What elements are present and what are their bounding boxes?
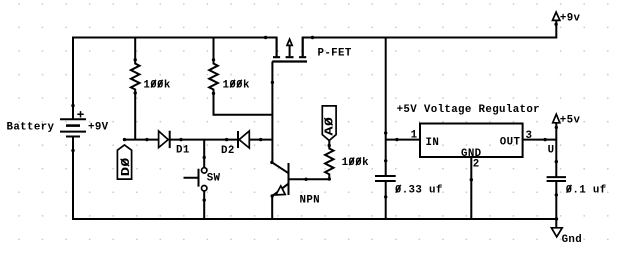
svg-text:Gnd: Gnd — [562, 234, 583, 246]
svg-text:Battery: Battery — [7, 121, 55, 133]
svg-text:SW: SW — [207, 173, 221, 185]
svg-text:NPN: NPN — [300, 195, 321, 207]
svg-text:P-FET: P-FET — [318, 47, 352, 59]
svg-text:100k: 100k — [143, 79, 170, 91]
svg-text:2: 2 — [473, 158, 480, 170]
svg-text:0.1 uf: 0.1 uf — [566, 184, 607, 196]
svg-text:+9V: +9V — [88, 122, 109, 134]
svg-text:100k: 100k — [342, 157, 369, 169]
svg-text:IN: IN — [426, 137, 440, 149]
svg-text:D1: D1 — [176, 144, 190, 156]
svg-text:OUT: OUT — [500, 137, 521, 149]
svg-text:U: U — [548, 145, 555, 157]
svg-text:3: 3 — [526, 130, 533, 142]
svg-text:+5V Voltage Regulator: +5V Voltage Regulator — [397, 104, 540, 116]
svg-text:0.33 uf: 0.33 uf — [395, 184, 443, 196]
svg-text:+5v: +5v — [560, 114, 581, 126]
svg-text:D2: D2 — [221, 145, 235, 157]
svg-text:+9v: +9v — [560, 12, 581, 24]
svg-text:1: 1 — [411, 129, 418, 141]
svg-text:100k: 100k — [223, 79, 250, 91]
